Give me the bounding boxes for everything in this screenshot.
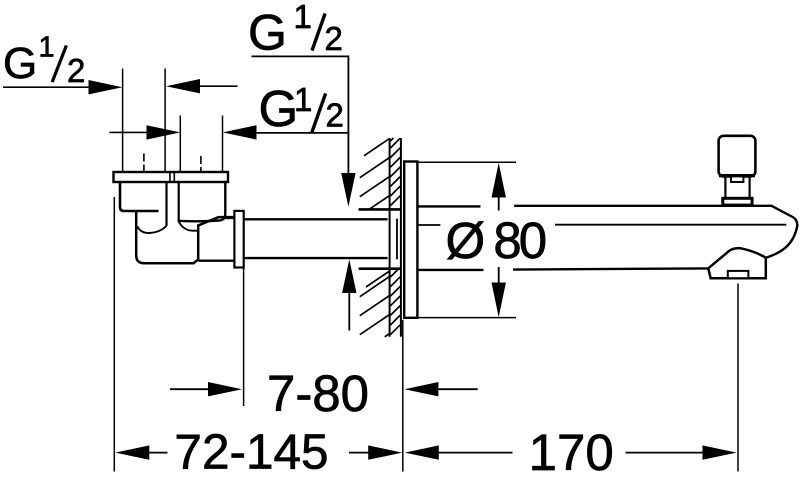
spout top edge: [417, 205, 481, 207]
svg-text:G: G: [3, 39, 37, 88]
svg-text:7-80: 7-80: [267, 365, 369, 422]
wall flange (escutcheon, side view): [404, 162, 417, 318]
centerline pipe1: [143, 154, 145, 172]
union nut: [234, 211, 243, 268]
cover plate: [114, 172, 229, 182]
dim Ø80 arrow up: [492, 163, 506, 198]
svg-text:1: 1: [39, 32, 55, 64]
left valve block: [120, 182, 159, 211]
step to union nut: [225, 217, 234, 219]
extension line pipe2 right: [222, 116, 224, 172]
wall front surface line: [400, 138, 402, 337]
extension line pipe1 right: [164, 69, 166, 172]
label G1/2 top-center: [248, 0, 343, 60]
pipe thread line in wall: [396, 219, 398, 260]
diverter knob base: [723, 198, 752, 205]
diverter knob notch: [731, 176, 743, 182]
svg-text:72-145: 72-145: [174, 424, 328, 478]
extension line pipe1 left: [122, 69, 124, 172]
riser column: [165, 182, 167, 226]
extension line wall face: [402, 320, 404, 472]
extension line pipe2 left: [179, 116, 181, 172]
dimension 72-145: [115, 445, 149, 459]
svg-text:G: G: [259, 80, 299, 137]
elbow seam right dip: [179, 222, 198, 231]
wall hatching upper: [360, 138, 400, 209]
dim Ø80 arrow down: [492, 283, 506, 318]
pipe elbow-to-nut bottom: [198, 260, 234, 262]
diverter knob cap: [719, 136, 756, 177]
extension line left (body back face): [113, 197, 115, 472]
svg-text:170: 170: [529, 424, 614, 478]
elbow body: [136, 212, 235, 263]
centerline pipe2: [200, 156, 202, 171]
elbow seam left dip: [137, 226, 166, 233]
spout bottom edge: [417, 269, 484, 271]
wall hole top: [359, 208, 401, 211]
extension line nut face: [243, 268, 245, 407]
leader line of top-center G1/2 down to wall pipe: [252, 56, 349, 175]
svg-text:2: 2: [326, 96, 344, 133]
label G1/2 middle + underline (tail of row2): [259, 80, 344, 137]
dim Ø80 extension top: [418, 161, 516, 163]
wall hole bottom: [359, 267, 401, 270]
spout mid line: [418, 224, 441, 226]
dimension 170: [405, 445, 439, 459]
svg-text:2: 2: [325, 20, 343, 57]
svg-text:1: 1: [294, 81, 312, 118]
connecting pipe to wall: [244, 218, 388, 220]
label G1/2 top-left: [3, 32, 85, 90]
right valve block: [179, 182, 226, 221]
wall hatching lower: [360, 269, 400, 337]
dimension 7-80: [170, 388, 209, 390]
aerator outlet: [728, 271, 749, 278]
svg-text:1: 1: [294, 0, 312, 35]
up arrow at pipe bottom (G1/2 callout): [342, 259, 356, 293]
svg-text:Ø 80: Ø 80: [446, 212, 546, 269]
spout tip outline: [766, 206, 798, 258]
wall back line: [389, 138, 391, 337]
extension line spout outlet: [737, 284, 739, 472]
svg-text:G: G: [248, 4, 287, 60]
dimension row2 right pipe G1/2: line + arrows: [110, 131, 149, 133]
dimension row1 left pipe G1/2: line + right arrow: [3, 86, 238, 87]
aerator housing dome: [708, 248, 766, 278]
dim Ø80 extension bottom: [418, 317, 516, 319]
svg-text:2: 2: [67, 52, 85, 89]
diverter knob neck: [725, 176, 749, 198]
